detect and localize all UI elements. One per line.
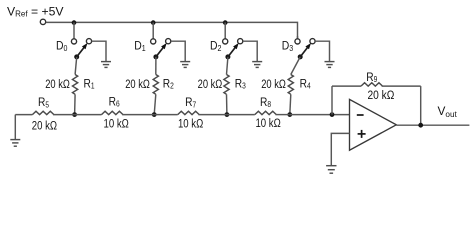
ground D1 (180, 62, 190, 68)
svg-text:20 kΩ: 20 kΩ (125, 78, 150, 91)
wire R8 to node D (276, 114, 290, 116)
svg-text:R9: R9 (366, 71, 377, 84)
ground D2 (252, 62, 262, 68)
junction dot rail-D2 (223, 20, 228, 25)
svg-text:20 kΩ: 20 kΩ (367, 90, 394, 103)
switch D1 right contact (166, 39, 171, 44)
switch D1 left contact (151, 39, 156, 44)
wire D1 right contact to ground (171, 41, 185, 61)
svg-text:R4: R4 (300, 78, 311, 91)
junction dot feedback tap (330, 112, 335, 117)
svg-text:20 kΩ: 20 kΩ (45, 78, 70, 91)
wire D2 pole to R3 (227, 57, 228, 75)
wire R1 to ladder node A (74, 94, 77, 114)
resistor R6 (102, 111, 124, 114)
wire node A to R6 (75, 114, 102, 116)
wire R7 to node C (198, 114, 227, 116)
resistor R5 (32, 111, 54, 114)
wire feedback up (331, 86, 333, 115)
wire rail tap to D0 (73, 22, 75, 38)
svg-text:20 kΩ: 20 kΩ (32, 120, 57, 133)
wire non-inverting input to ground (331, 133, 349, 165)
switch D1 pole dot (153, 54, 158, 59)
junction dot rail-D1 (151, 20, 156, 25)
resistor R3 (224, 75, 229, 95)
resistor R1 (73, 75, 78, 95)
wire R3 to ladder node C (226, 94, 228, 114)
op-amp non-inverting sign (358, 130, 366, 138)
switch D3 arm (300, 43, 311, 57)
svg-text:R8: R8 (260, 96, 271, 109)
switch D3 pole dot (298, 54, 303, 59)
svg-text:10 kΩ: 10 kΩ (178, 117, 203, 130)
svg-text:R3: R3 (235, 78, 246, 91)
wire node D to op-amp inverting input (290, 114, 350, 116)
svg-text:Vout: Vout (438, 104, 458, 119)
wire feedback down to output (420, 86, 422, 125)
svg-text:R1: R1 (84, 78, 95, 91)
svg-text:D2: D2 (210, 40, 221, 53)
switch D0 pole dot (74, 54, 79, 59)
ground D3 (325, 62, 335, 68)
wire R5 to node A (53, 114, 75, 116)
wire D0 right contact to ground (92, 41, 106, 61)
wire R4 to ladder node D (290, 94, 291, 114)
switch D0 arm (77, 43, 88, 57)
svg-text:R5: R5 (38, 97, 49, 110)
switch D2 left contact (223, 39, 228, 44)
wire output (396, 124, 469, 126)
junction dot rail-D0 (72, 20, 77, 25)
resistor R2 (153, 75, 158, 95)
resistor R9 (361, 83, 383, 86)
svg-text:VRef = +5V: VRef = +5V (7, 5, 64, 19)
wire rail tap to D3 (297, 36, 299, 39)
svg-text:20 kΩ: 20 kΩ (198, 78, 223, 91)
junction dot node D (287, 112, 292, 117)
wire R6 to node B (122, 114, 154, 116)
junction dot node B (152, 112, 157, 117)
svg-text:10 kΩ: 10 kΩ (104, 118, 129, 131)
wire D0 pole to R1 (75, 57, 77, 75)
switch D0 right contact (86, 39, 91, 44)
wire D1 pole to R2 (155, 57, 157, 75)
wire node B to R7 (154, 114, 178, 116)
svg-text:R6: R6 (109, 96, 120, 109)
resistor R8 (255, 111, 276, 114)
svg-text:D0: D0 (56, 40, 67, 53)
VRef input terminal (40, 19, 45, 24)
svg-text:R7: R7 (185, 97, 196, 110)
wire D2 right contact to ground (243, 41, 257, 61)
ground ladder left end (10, 115, 20, 147)
junction dot output node (418, 123, 423, 128)
wire feedback top left segment (332, 85, 361, 87)
ground D0 (101, 62, 111, 68)
wire feedback top right segment (382, 85, 421, 87)
switch D3 left contact (295, 39, 300, 44)
svg-text:D3: D3 (282, 40, 293, 53)
resistor R7 (178, 111, 200, 114)
svg-text:20 kΩ: 20 kΩ (261, 78, 286, 91)
wire D3 right contact to ground (315, 41, 329, 61)
switch D2 pole dot (225, 54, 230, 59)
wire rail tap to D1 (152, 22, 154, 38)
switch D2 right contact (238, 39, 243, 44)
wire rail tap to D2 (224, 22, 226, 38)
switch D2 arm (228, 43, 239, 57)
resistor R4 (288, 75, 293, 95)
svg-text:D1: D1 (134, 40, 145, 53)
wire R2 to ladder node B (154, 94, 156, 114)
svg-text:R2: R2 (163, 78, 174, 91)
junction dot node C (225, 112, 230, 117)
wire Vref rail (46, 22, 298, 38)
wire D3 pole to R4 (291, 57, 300, 75)
switch D3 right contact (310, 39, 315, 44)
op-amp inverting sign (357, 114, 364, 116)
switch D1 arm (156, 43, 167, 57)
switch D0 left contact (71, 39, 76, 44)
svg-text:10 kΩ: 10 kΩ (255, 117, 280, 130)
ground op-amp (326, 166, 336, 174)
junction dot node A (72, 112, 77, 117)
wire node C to R8 (227, 114, 255, 116)
wire ladder left segment (15, 114, 32, 116)
op-amp U1 (350, 99, 397, 150)
